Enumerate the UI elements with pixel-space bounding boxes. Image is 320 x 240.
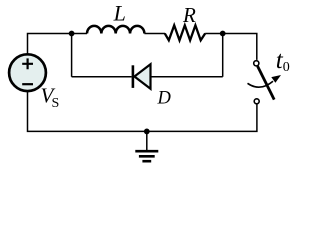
svg-text:R: R	[182, 3, 196, 27]
wire node B down to diode branch	[222, 34, 224, 77]
ground stem	[146, 131, 148, 150]
ground bar 2	[139, 155, 155, 158]
resistor R	[165, 25, 205, 40]
switch bottom terminal circle	[254, 99, 259, 104]
plus sign	[22, 58, 33, 69]
minus sign	[22, 83, 33, 85]
node A junction dot	[69, 31, 75, 37]
voltage source VS circle	[9, 54, 46, 91]
svg-text:0: 0	[283, 60, 290, 75]
wire diode branch right	[151, 76, 223, 78]
svg-text:D: D	[157, 89, 172, 109]
wire node A to inductor	[72, 33, 87, 35]
diode D triangle	[134, 64, 150, 89]
ground junction dot	[144, 129, 150, 135]
svg-text:S: S	[52, 96, 60, 111]
wire source bottom to bottom rail, bottom rail, up to switch bottom	[28, 92, 257, 131]
ground bar 3	[142, 160, 151, 163]
switch arc arrow	[248, 81, 274, 87]
wire node A down to diode branch	[71, 34, 73, 77]
wire resistor to node B	[205, 33, 223, 35]
inductor L	[87, 26, 144, 34]
switch blade	[258, 66, 275, 99]
wire diode branch left	[72, 76, 132, 78]
ground bar 1	[135, 150, 158, 153]
wire inductor to resistor	[144, 33, 165, 35]
svg-text:L: L	[113, 1, 126, 26]
diode D cathode bar	[132, 65, 135, 88]
switch top terminal circle	[254, 61, 259, 66]
wire from source top to top rail corner to node A	[28, 34, 72, 54]
wire node B to top-right corner down to switch	[223, 34, 257, 60]
node B junction dot	[220, 31, 226, 37]
switch arrowhead	[271, 75, 281, 83]
